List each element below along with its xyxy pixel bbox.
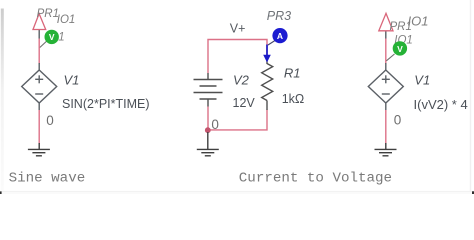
svg-text:0: 0 [211,117,219,132]
svg-text:Current to Voltage: Current to Voltage [239,171,392,187]
source V1 minus sign [35,93,43,95]
svg-text:V1: V1 [64,73,80,88]
probe PR1 leader line [40,41,47,48]
svg-text:PR1: PR1 [390,21,412,33]
ground left bars [28,148,50,150]
pin stub source V1 top [38,63,40,70]
wire battery bottom to junction [207,107,209,131]
canvas right border [470,0,472,191]
ground right bars [375,148,397,150]
svg-text:PR3: PR3 [267,9,291,23]
svg-text:V+: V+ [230,21,246,35]
ground middle stem [207,132,209,149]
ground left stem [38,143,40,149]
ground middle bars [197,148,219,150]
svg-text:A: A [277,31,283,41]
ground right stem [385,143,387,149]
pin stub battery V2 top [207,73,209,80]
current direction arrow [266,45,268,57]
svg-text:12V: 12V [233,96,256,110]
source V1 plus sign [35,78,43,80]
probe leader line right [386,54,394,61]
probe PR1 voltage probe circle [45,30,59,44]
probe PR3 current probe circle [272,28,287,43]
source V1 right diamond [368,70,403,103]
wire bottom rail [208,110,267,130]
svg-text:V2: V2 [233,72,250,87]
bottom-right corner mark [472,191,474,194]
svg-text:1kΩ: 1kΩ [282,92,305,106]
wire net IO1 top right [385,39,387,65]
wire V+ rail top [208,40,267,74]
svg-text:0: 0 [394,112,402,127]
resistor R1 zigzag [262,64,273,101]
pin stub source V1r bottom [385,103,387,110]
svg-text:I(vV2) * 4: I(vV2) * 4 [414,97,468,112]
svg-text:1: 1 [58,32,64,44]
source V1 right plus sign [382,78,390,80]
bottom-left corner mark [0,191,2,194]
svg-text:SIN(2*PI*TIME): SIN(2*PI*TIME) [62,97,150,111]
connector IO1 triangle [33,14,46,30]
pin stub source V1r top [385,63,387,70]
pin stub source V1 bottom [38,103,40,110]
connector IO1 triangle right [379,13,393,30]
svg-text:V1: V1 [414,72,430,87]
source V1 right minus sign [382,93,390,95]
pin stub resistor R1 bottom [266,101,268,111]
svg-text:V: V [397,44,403,54]
battery V2 plates [194,79,223,81]
svg-text:Sine wave: Sine wave [9,171,86,187]
wire net0 bottom left [38,110,40,144]
probe PR3 leader line [268,41,275,46]
wire net0 bottom right [385,110,387,144]
source V1 diamond [22,70,57,103]
svg-text:R1: R1 [284,66,301,81]
pin stub resistor R1 top [266,60,268,64]
probe voltage circle right [393,41,407,55]
junction dot net 0 [205,127,211,133]
svg-text:0: 0 [46,113,54,128]
wire net1 top (triangle to source V1) [38,39,40,65]
svg-text:IO1: IO1 [57,14,76,26]
pin stub battery V2 bottom [207,99,209,107]
canvas bottom border [0,191,474,194]
svg-text:PR1: PR1 [37,8,59,20]
svg-text:V: V [49,32,55,42]
